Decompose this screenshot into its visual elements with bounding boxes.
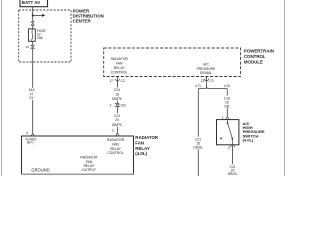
svg-text:DB/PK: DB/PK (112, 97, 123, 101)
svg-text:C2: C2 (121, 79, 125, 83)
pin 2 of radiator fan relay (112, 128, 119, 136)
junction node on wire (32, 15, 34, 17)
svg-text:2: 2 (112, 128, 114, 132)
wire connector to fuse (32, 25, 34, 29)
svg-text:RELAY: RELAY (110, 147, 122, 151)
PCM pin 22 connector C3 (201, 77, 214, 84)
label: POWERTRAIN CONTROL MODULE (244, 48, 274, 64)
svg-text:OUTPUT: OUTPUT (82, 168, 96, 172)
wire pin17 down (116, 83, 118, 103)
connector symbol above fuse (31, 22, 34, 25)
label: POWER DISTRIBUTION CENTER (73, 8, 104, 23)
svg-text:RELAY: RELAY (135, 146, 150, 151)
wire switch down off page (232, 150, 234, 177)
svg-text:FAN: FAN (116, 62, 123, 66)
component name A/C HIGH PRESSURE SWITCH (4.0L) (243, 121, 265, 143)
fuse value label (37, 29, 47, 40)
svg-text:POWERTRAIN: POWERTRAIN (244, 48, 274, 53)
svg-text:(4.0L): (4.0L) (135, 151, 147, 156)
svg-text:17: 17 (109, 79, 113, 83)
svg-text:CONTROL: CONTROL (107, 151, 124, 155)
svg-text:RELAY: RELAY (114, 66, 126, 70)
svg-text:C102: C102 (118, 103, 126, 107)
switch contacts (220, 120, 233, 145)
left branch wire (4.7L) down off page (197, 91, 199, 176)
relay terminal label FUSED B(+) (26, 137, 38, 144)
radiator fan relay box (21, 136, 134, 174)
svg-text:C3: C3 (209, 79, 213, 83)
svg-text:3: 3 (109, 103, 111, 107)
svg-text:C24: C24 (114, 88, 120, 92)
wire down through PDC edge to relay pin 4 (32, 49, 34, 133)
page right border (284, 0, 286, 176)
a/c high pressure switch box (217, 120, 239, 145)
svg-text:BATT A0: BATT A0 (22, 0, 41, 5)
PCM internal label A/C PRESSURE SIGNAL (197, 63, 216, 76)
svg-text:MODULE: MODULE (244, 59, 263, 64)
wire label A16 12 GY (28, 88, 37, 100)
svg-text:DB: DB (225, 104, 230, 108)
svg-text:CENTER: CENTER (73, 19, 92, 24)
wire split bracket to 4.7L / 4.0L branches (198, 83, 227, 91)
wire label C21 20 DB/SL (227, 164, 239, 176)
svg-text:DB/SL: DB/SL (193, 145, 203, 149)
wire label C18 18 DB (222, 96, 234, 109)
svg-text:DB/PK: DB/PK (112, 123, 123, 127)
in-line connector C102 pin 3 (109, 103, 125, 107)
wire label C21 18 DB/SL (193, 137, 205, 150)
svg-text:GROUND: GROUND (31, 168, 49, 173)
svg-text:DB/SL: DB/SL (228, 172, 238, 176)
svg-text:RADIATOR: RADIATOR (111, 57, 129, 61)
svg-text:RADIATOR: RADIATOR (107, 138, 125, 142)
relay terminal label RADIATOR FAN RELAY OUTPUT (80, 156, 98, 173)
svg-text:FAN: FAN (135, 140, 144, 145)
right branch wire (4.0L) to switch (226, 91, 228, 117)
arrow (feed continues) (33, 14, 46, 17)
svg-text:18: 18 (115, 93, 119, 97)
PCM internal label RADIATOR FAN RELAY CONTROL (111, 57, 129, 75)
svg-text:22: 22 (201, 79, 205, 83)
pin 1 of a/c high pressure switch (221, 116, 229, 120)
svg-text:2: 2 (228, 146, 230, 150)
connector symbol below fuse, cavity 16 (26, 45, 35, 49)
svg-text:FAN: FAN (112, 142, 119, 146)
svg-text:40A: 40A (37, 36, 44, 40)
svg-text:GY: GY (29, 96, 35, 100)
page left border (1, 0, 3, 176)
svg-text:20: 20 (115, 118, 119, 122)
wire from BATT A0 down to junction (32, 7, 34, 16)
powertrain control module dashed box (104, 48, 241, 77)
battery feed box BATT A0 (20, 0, 48, 7)
PCM pin 17 connector C2 (109, 77, 125, 84)
svg-text:SIGNAL: SIGNAL (200, 71, 213, 75)
svg-text:B(+): B(+) (27, 141, 33, 145)
wire label C24 20 DB/PK (112, 113, 124, 127)
pin 4 of radiator fan relay (26, 131, 34, 136)
pin 2 of a/c high pressure switch (228, 145, 235, 150)
wire C102 down to relay pin 2 (116, 107, 118, 129)
svg-text:CONTROL: CONTROL (111, 71, 128, 75)
svg-text:4.7L: 4.7L (195, 84, 202, 88)
power distribution center dashed box (19, 10, 71, 62)
wire junction to connector (32, 15, 34, 22)
wire label C24 18 DB/PK (112, 88, 124, 101)
svg-text:4.0L: 4.0L (224, 84, 231, 88)
svg-text:(4.0L): (4.0L) (243, 137, 254, 142)
relay terminal label RADIATOR FAN RELAY CONTROL (107, 138, 125, 155)
component name RADIATOR FAN RELAY (4.0L) (135, 135, 159, 156)
svg-text:CONTROL: CONTROL (244, 54, 266, 59)
wire fuse to lower connector (32, 41, 34, 45)
svg-text:4: 4 (26, 131, 28, 135)
svg-text:16: 16 (26, 45, 30, 49)
fuse 12 40A (28, 29, 35, 41)
